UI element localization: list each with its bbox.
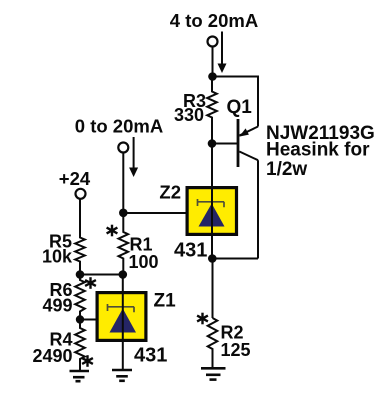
current arrow (0-20mA) <box>129 137 138 177</box>
terminal T2 (0-20mA input) <box>118 143 128 153</box>
svg-text:431: 431 <box>134 345 167 367</box>
svg-text:499: 499 <box>42 296 72 316</box>
wire node C to R2 <box>212 259 214 319</box>
svg-text:2490: 2490 <box>32 346 72 366</box>
wire node E through Z1 to ground <box>122 275 124 370</box>
resistor R1 <box>119 213 129 275</box>
svg-text:Heasink for: Heasink for <box>266 139 370 160</box>
wire T1 to node A <box>212 47 214 78</box>
wire base <box>212 143 237 145</box>
wire node G to Z1 ref <box>80 319 97 321</box>
svg-text:125: 125 <box>221 340 251 360</box>
node C junction <box>208 254 217 263</box>
asterisk (R6) <box>85 277 96 289</box>
asterisk (R1) <box>107 225 118 237</box>
regulator Z2 (431 shunt) <box>187 188 236 235</box>
ground (R4) <box>70 371 90 381</box>
svg-text:Z2: Z2 <box>159 182 181 203</box>
resistor R2 <box>208 318 218 368</box>
asterisk (R4) <box>82 355 93 367</box>
node D junction <box>119 209 128 218</box>
wire T2 to node D <box>122 153 124 214</box>
node B junction (base of Q1) <box>208 139 217 148</box>
wire node B through Z2 to node C <box>211 144 213 259</box>
svg-text:330: 330 <box>174 105 204 125</box>
wire node A to emitter rail <box>213 77 259 127</box>
svg-text:431: 431 <box>174 240 207 262</box>
wire collector rail down <box>257 160 259 258</box>
ground (R2) <box>201 368 226 379</box>
resistor R5 <box>75 199 85 275</box>
svg-text:100: 100 <box>129 252 159 272</box>
svg-text:Q1: Q1 <box>227 97 253 118</box>
svg-text:+24: +24 <box>59 168 91 189</box>
resistor R3 <box>207 81 217 144</box>
svg-text:1/2w: 1/2w <box>266 159 307 180</box>
asterisk (R2) <box>197 313 208 325</box>
svg-text:Z1: Z1 <box>154 291 177 312</box>
node G junction (R6/R4, Z1 ref) <box>76 315 84 323</box>
terminal T3 (+24) <box>76 189 86 199</box>
ground (Z1) <box>112 370 132 381</box>
note NJW21193G heatsink <box>266 123 375 180</box>
svg-text:4 to 20mA: 4 to 20mA <box>170 10 258 31</box>
terminal T1 (4-20mA input) <box>208 37 218 47</box>
svg-text:0 to 20mA: 0 to 20mA <box>75 116 163 137</box>
transistor Q1 <box>237 119 258 167</box>
current arrow (4-20mA) <box>218 32 227 74</box>
svg-text:10k: 10k <box>42 247 73 267</box>
regulator Z1 (431 shunt) <box>97 293 146 341</box>
node E junction (R1 bottom) <box>119 270 128 279</box>
wire node C to collector rail <box>212 258 258 260</box>
node A junction <box>208 72 217 81</box>
resistor R4 <box>75 320 85 372</box>
resistor R6 <box>75 275 85 320</box>
node F junction (R5/R6) <box>76 270 85 279</box>
wire 0-20mA node to Z2 ref <box>123 212 187 214</box>
wire node F to node E <box>80 274 123 276</box>
